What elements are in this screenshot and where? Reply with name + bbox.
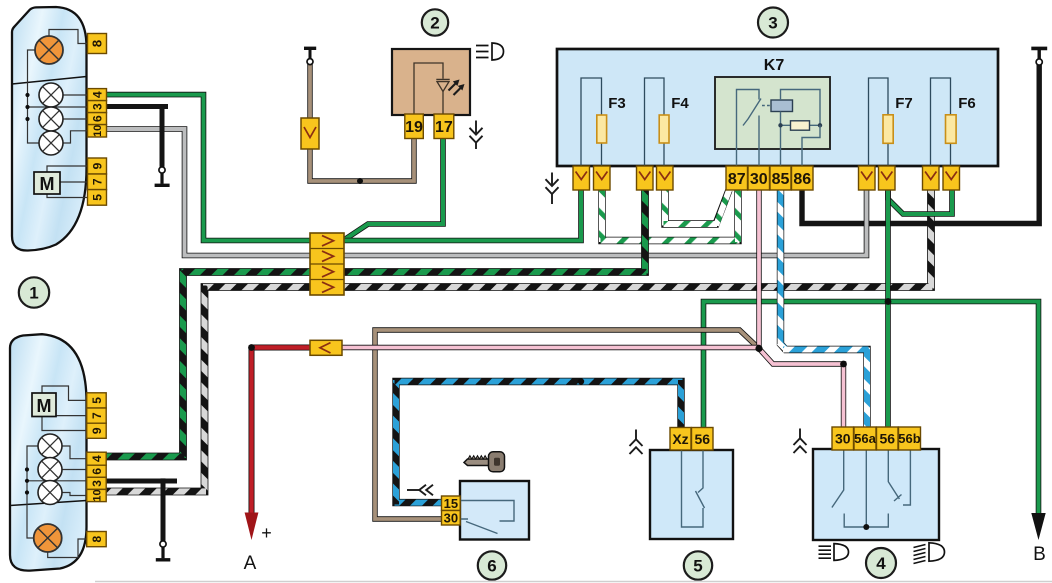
svg-text:F3: F3	[608, 95, 626, 112]
wire: black ground wire comp1 pin3	[106, 104, 168, 109]
svg-text:1: 1	[29, 284, 38, 303]
body connection T (cluster)	[304, 47, 316, 50]
svg-text:30: 30	[835, 431, 851, 447]
svg-text:86: 86	[793, 171, 811, 188]
turn lamp (orange) comp1b	[34, 524, 62, 552]
svg-text:2: 2	[430, 14, 439, 33]
to-other-consumers arrow left of block	[546, 173, 559, 205]
svg-text:F4: F4	[671, 95, 689, 112]
headlight 1 housing	[12, 7, 87, 251]
switch comp5	[650, 450, 733, 539]
to-other-circuits arrow left of comp5	[630, 430, 643, 455]
bottom edge artifact line	[95, 581, 1052, 583]
svg-text:A: A	[244, 553, 257, 574]
fuse F6	[931, 78, 951, 166]
wire: green jumper F7 to F6	[888, 189, 952, 214]
switch comp4	[813, 449, 939, 540]
svg-text:17: 17	[435, 119, 453, 136]
svg-text:19: 19	[405, 119, 423, 136]
ignition switch comp6	[460, 481, 529, 540]
internal wiring comp1	[28, 50, 40, 143]
fuse F7	[869, 78, 889, 166]
lamps comp1b	[38, 434, 62, 458]
connector single (battery feed)	[310, 340, 342, 355]
mounting block comp3	[557, 49, 998, 166]
relay K7	[715, 77, 830, 149]
svg-text:10: 10	[91, 489, 103, 501]
connector single (cluster feed)	[301, 118, 319, 149]
wire: brown feed to ignition switch 30	[375, 330, 759, 519]
svg-text:M: M	[40, 174, 55, 194]
svg-text:6: 6	[90, 115, 104, 122]
to-other-circuits arrow left of comp4	[794, 429, 807, 454]
arrow marker left of 15	[407, 485, 433, 496]
wire: red battery feed	[252, 345, 312, 351]
key icon	[464, 452, 505, 472]
svg-text:8: 8	[90, 40, 105, 47]
wire: white-black hatched bus F6 to comp1b pin10	[106, 189, 931, 492]
wire: blue-white hatched relay 85 to switch 56a	[781, 189, 868, 428]
svg-text:30: 30	[750, 171, 768, 188]
wire: green-black hatched bus F4 to comp1b pin4	[106, 189, 645, 457]
junction dots	[357, 178, 363, 184]
low beam icon right of circle4	[914, 545, 926, 564]
relay pin boxes	[726, 166, 748, 190]
svg-text:F7: F7	[895, 95, 913, 112]
wire: gray bus comp1 pin10 to fuse F7	[87, 129, 867, 256]
svg-text:6: 6	[90, 468, 104, 475]
svg-text:M: M	[37, 396, 52, 416]
high beam icon comp2	[476, 46, 489, 58]
svg-text:5: 5	[693, 557, 702, 576]
wire: white-green F3 output to relay contact 87	[602, 189, 738, 241]
svg-text:3: 3	[768, 14, 777, 33]
block terminals	[573, 166, 590, 190]
arrow B	[1031, 513, 1045, 540]
svg-text:10: 10	[92, 125, 104, 137]
svg-text:7: 7	[90, 178, 104, 185]
svg-text:B: B	[1033, 544, 1046, 565]
pins comp1	[88, 34, 107, 54]
pins comp1b	[87, 393, 107, 408]
comp2 pins	[405, 114, 424, 139]
svg-text:9: 9	[90, 427, 104, 434]
svg-text:30: 30	[444, 510, 458, 525]
svg-text:6: 6	[487, 557, 496, 576]
motor M comp1b	[32, 393, 56, 417]
comp4 pins	[832, 427, 854, 450]
internal wiring comp1b	[27, 446, 38, 538]
svg-text:7: 7	[90, 412, 104, 419]
wire: white-green F4 output to relay contact 87	[665, 189, 729, 224]
fuse F4	[645, 78, 665, 166]
svg-text:9: 9	[90, 162, 104, 169]
position labels 1-6	[19, 277, 49, 307]
wire: green wire headlight bus to cluster pin 17	[345, 137, 443, 239]
headlight 1b housing	[10, 334, 87, 570]
lamps comp1	[39, 83, 63, 107]
to-other-circuits arrow below 17	[470, 121, 483, 150]
divider 1b	[10, 501, 87, 506]
wire: brown wire from body point to cluster pin 19	[310, 64, 414, 181]
connector block X 4-way	[310, 233, 344, 295]
wire: pink supply net relay 30	[756, 189, 761, 349]
svg-text:3: 3	[90, 480, 104, 487]
turn lamp (orange) comp1	[35, 36, 63, 64]
svg-text:8: 8	[90, 535, 104, 542]
svg-text:56b: 56b	[898, 431, 920, 446]
relay coil	[771, 100, 793, 112]
svg-text:85: 85	[772, 171, 790, 188]
motor M comp1	[34, 172, 60, 194]
svg-text:56: 56	[879, 431, 895, 447]
svg-text:56a: 56a	[854, 431, 876, 446]
body connection T top right	[1031, 47, 1047, 51]
svg-text:K7: K7	[764, 57, 785, 74]
svg-text:4: 4	[876, 554, 886, 573]
svg-text:4: 4	[90, 455, 104, 462]
divider	[12, 77, 87, 85]
wire: black ground wire comp1b pin3	[106, 479, 177, 484]
relay resistor	[791, 121, 810, 130]
wire: black relay coil 86 to body ground point B-pillar	[802, 65, 1039, 224]
svg-text:F6: F6	[958, 95, 976, 112]
comp2 internal	[414, 63, 443, 115]
svg-text:56: 56	[694, 431, 710, 447]
wire: green low-beam bus comp1 pin4 to F3	[87, 95, 581, 241]
LED symbol	[436, 79, 449, 81]
svg-text:15: 15	[444, 496, 458, 511]
arrow A	[245, 513, 259, 541]
svg-text:Xz: Xz	[672, 431, 688, 447]
comp6 pins	[442, 496, 461, 511]
svg-text:5: 5	[90, 194, 104, 201]
svg-text:87: 87	[728, 171, 746, 188]
wire: blue-black hatched ignition 15 to switch Xz	[396, 382, 681, 503]
svg-text:3: 3	[90, 103, 104, 110]
high beam icon left of circle4	[819, 546, 832, 558]
wire: green main-beam net F7 to switches and point B	[885, 189, 891, 428]
svg-text:+: +	[261, 523, 272, 543]
fuse F3	[581, 78, 602, 166]
indicator unit comp2	[392, 49, 470, 115]
comp5 pins	[670, 428, 691, 451]
ground bar comp1b	[156, 558, 171, 561]
svg-text:5: 5	[90, 397, 104, 404]
svg-text:4: 4	[90, 91, 104, 98]
ground bar comp1	[155, 184, 170, 187]
